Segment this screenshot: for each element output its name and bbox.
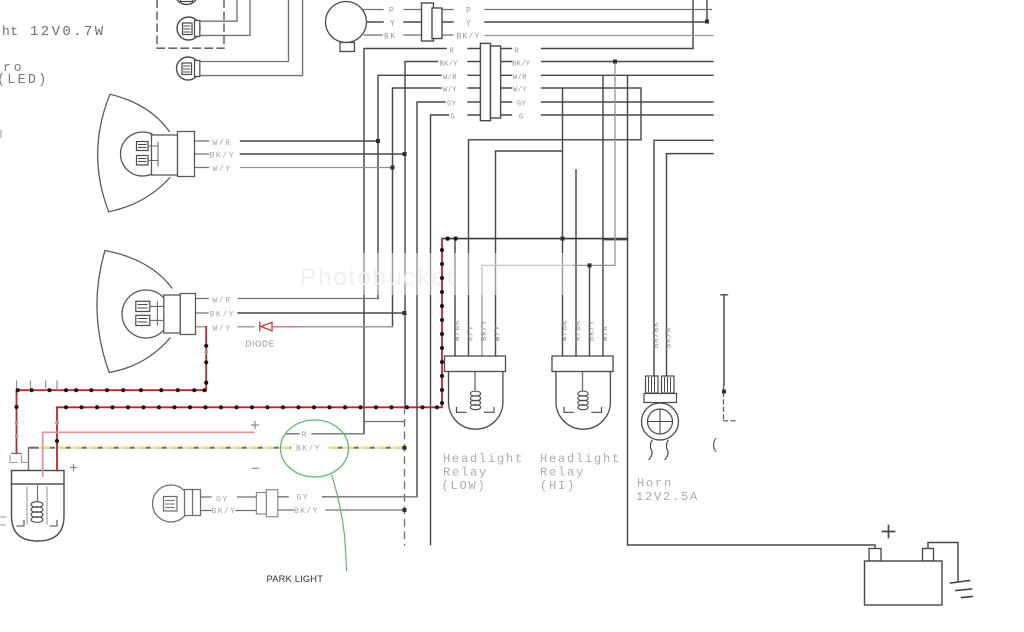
svg-text:R: R — [302, 431, 308, 440]
svg-text:W/Y: W/Y — [494, 325, 502, 341]
svg-text:R/Y: R/Y — [467, 325, 475, 341]
svg-text:BK/Y: BK/Y — [210, 152, 236, 161]
svg-text:G: G — [519, 114, 524, 122]
svg-text:R: R — [450, 48, 455, 56]
svg-text:BK/Y: BK/Y — [212, 507, 237, 516]
svg-text:G: G — [451, 114, 456, 122]
svg-text:(LOW): (LOW) — [442, 479, 487, 493]
svg-text:P: P — [389, 7, 395, 16]
svg-text:Relay: Relay — [443, 466, 488, 480]
svg-text:BK/Y: BK/Y — [588, 320, 596, 341]
svg-text:W/BK: W/BK — [561, 320, 569, 341]
svg-text:(HI): (HI) — [540, 479, 576, 493]
svg-text:(LED): (LED) — [0, 73, 49, 88]
svg-text:DIODE: DIODE — [246, 340, 275, 349]
svg-text:W/BK: W/BK — [454, 320, 462, 341]
svg-text:R: R — [515, 48, 520, 56]
svg-text:Headlight: Headlight — [443, 452, 524, 466]
svg-text:BK/Y: BK/Y — [457, 33, 481, 42]
svg-text:GY: GY — [216, 496, 228, 505]
svg-text:GY: GY — [447, 101, 457, 109]
svg-text:W/Y: W/Y — [213, 165, 232, 174]
svg-text:W/R: W/R — [513, 74, 527, 82]
svg-text:W/R: W/R — [213, 297, 232, 306]
svg-text:BR/BK: BR/BK — [653, 321, 661, 348]
svg-text:GY: GY — [297, 494, 309, 503]
svg-text:P: P — [466, 7, 472, 16]
svg-text:Y: Y — [466, 20, 472, 29]
svg-text:W/R: W/R — [602, 325, 610, 341]
svg-text:BK/Y: BK/Y — [481, 320, 489, 341]
svg-text:12V0.7W: 12V0.7W — [30, 24, 106, 40]
svg-text:R/BK: R/BK — [575, 320, 583, 341]
svg-text:BK/Y: BK/Y — [296, 445, 321, 454]
svg-text:GY: GY — [517, 101, 527, 109]
svg-text:BK/Y: BK/Y — [210, 311, 236, 320]
svg-text:BK/R: BK/R — [665, 327, 673, 348]
svg-text:BK/Y: BK/Y — [440, 61, 459, 69]
svg-text:W/R: W/R — [213, 139, 232, 148]
svg-text:ht: ht — [2, 24, 19, 39]
svg-text:Photobucket: Photobucket — [300, 264, 455, 291]
svg-text:Headlight: Headlight — [540, 452, 621, 466]
svg-text:W/R: W/R — [443, 74, 457, 82]
svg-text:PARK LIGHT: PARK LIGHT — [267, 574, 324, 584]
svg-text:(: ( — [712, 436, 717, 453]
svg-text:BK: BK — [384, 33, 397, 42]
svg-text:Y: Y — [390, 20, 396, 29]
svg-text:Relay: Relay — [540, 466, 585, 480]
svg-text:BK/Y: BK/Y — [294, 507, 319, 516]
svg-text:W/Y: W/Y — [443, 87, 457, 95]
svg-text:12V2.5A: 12V2.5A — [636, 490, 699, 504]
svg-text:W/Y: W/Y — [513, 87, 527, 95]
svg-text:BK/Y: BK/Y — [512, 61, 531, 69]
svg-text:W/Y: W/Y — [213, 325, 232, 334]
svg-text:Horn: Horn — [637, 477, 673, 491]
